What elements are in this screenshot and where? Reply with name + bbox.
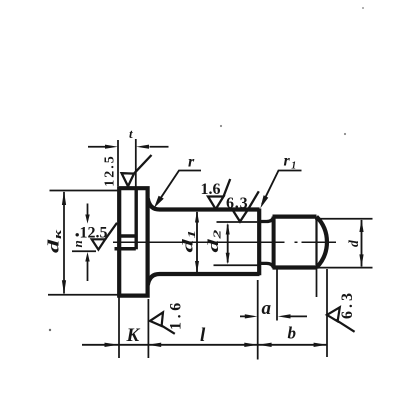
K right / l left arrow	[148, 343, 161, 347]
b left arrow	[258, 343, 271, 347]
bottom extension line head left	[118, 298, 120, 359]
tangent extension below part	[316, 269, 318, 298]
shaft d1 bottom edge with fillet	[148, 274, 260, 285]
dimension a line with outside arrows	[240, 315, 307, 317]
dimension d extension bottom	[315, 267, 373, 269]
svg-text:b: b	[288, 324, 297, 343]
surface finish 12.5 triangle at slot	[92, 239, 106, 249]
svg-text:6.3: 6.3	[226, 195, 248, 212]
surface finish 6.3 triangle on groove ext	[233, 210, 248, 222]
svg-text:l: l	[200, 325, 206, 346]
surface finish 12.5 slash at slot	[105, 223, 117, 240]
dimension dk extension top	[50, 190, 120, 192]
bottom extension line shoulder end	[257, 280, 259, 360]
svg-text:12.5: 12.5	[103, 154, 118, 187]
dimension dk extension bottom	[48, 294, 119, 296]
bottom extension line head right	[147, 299, 149, 358]
dimension d line	[361, 220, 363, 267]
svg-text:K: K	[126, 325, 141, 346]
slot bottom visible line	[134, 190, 137, 250]
slot bottom edge	[115, 247, 136, 251]
surface finish 1.6 slash bottom	[161, 325, 175, 334]
dimension n lower arrow	[87, 260, 89, 281]
surface finish 6.3 triangle bottom right	[327, 307, 340, 321]
bottom extension line sphere end	[326, 269, 328, 357]
dimension n upper arrow	[87, 204, 89, 216]
end head top edge	[273, 215, 317, 219]
bottom main dimension line K l b	[82, 344, 327, 346]
r1 leader line	[262, 171, 302, 205]
surface finish 1.6 triangle bottom	[150, 312, 163, 326]
dimension t line with outside arrows	[88, 146, 169, 148]
svg-text:a: a	[262, 298, 272, 319]
svg-text:6.3: 6.3	[339, 290, 356, 319]
dimension d2 extension top	[217, 221, 258, 223]
svg-text:n: n	[70, 240, 85, 247]
surface finish 6.3 slash bottom right	[336, 320, 355, 332]
centerline axis	[113, 241, 336, 243]
spherical end arc	[317, 217, 327, 268]
r leader line	[157, 171, 202, 205]
slot bottom extension line	[72, 250, 96, 252]
dimension t extension line left	[117, 140, 119, 186]
svg-text:d: d	[346, 240, 361, 247]
b right arrow	[314, 343, 327, 347]
slot top edge	[119, 234, 136, 238]
dimension d2 line	[227, 225, 229, 263]
scan specks	[220, 125, 222, 127]
dimension t extension line right	[135, 139, 137, 189]
sphere tangent line	[315, 220, 317, 266]
svg-text:1.6: 1.6	[168, 299, 185, 330]
stray dot before 12.5	[76, 233, 79, 236]
dimension d extension top	[315, 218, 373, 220]
surface finish 1.6 triangle on shaft	[208, 197, 224, 210]
surface finish 12.5 slash	[134, 155, 152, 174]
svg-text:t: t	[129, 126, 133, 141]
dimension d1 line	[196, 212, 198, 272]
surface finish 1.6 slash	[224, 179, 231, 197]
dimension dk line	[63, 192, 65, 294]
shoulder step face	[257, 209, 261, 276]
svg-text:r: r	[188, 154, 195, 171]
end head left face	[272, 217, 276, 268]
head outline	[119, 188, 147, 295]
l right arrow	[244, 343, 257, 347]
groove bottom edge with radius	[259, 263, 274, 268]
svg-text:12.5: 12.5	[80, 225, 108, 242]
r1 leader arrowhead	[260, 195, 268, 208]
svg-text:1.6: 1.6	[201, 181, 221, 198]
surface finish 6.3 slash	[248, 191, 259, 210]
bottom extension line end head face	[276, 270, 278, 321]
surface finish 12.5 on head top: triangle	[122, 173, 134, 186]
groove top edge with radius r1	[259, 217, 274, 222]
end head bottom edge	[273, 265, 317, 269]
r leader arrowhead	[154, 196, 164, 208]
dimension d2 extension bottom	[214, 264, 261, 266]
shaft d1 top edge with fillet r	[148, 199, 260, 210]
K left outside arrow	[105, 343, 119, 347]
